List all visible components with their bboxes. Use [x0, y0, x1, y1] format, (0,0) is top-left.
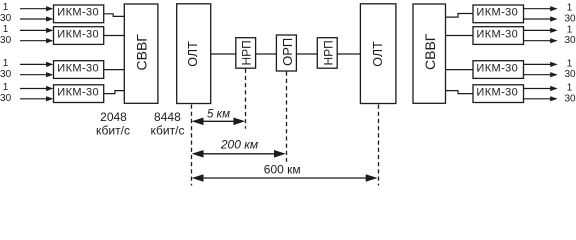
wire output arrow 30 block3 right — [524, 72, 558, 77]
svg-text:1: 1 — [567, 83, 573, 94]
block ORP — [276, 35, 296, 71]
svg-text:ИКМ-30: ИКМ-30 — [57, 7, 99, 19]
svg-text:кбит/с: кбит/с — [96, 123, 130, 137]
block OLT left — [177, 4, 211, 104]
svg-text:30: 30 — [564, 69, 576, 80]
svg-text:СВВГ: СВВГ — [422, 33, 438, 70]
svg-text:НРП: НРП — [322, 40, 336, 65]
svg-text:СВВГ: СВВГ — [133, 34, 149, 71]
svg-text:ИКМ-30: ИКМ-30 — [476, 7, 518, 19]
wire input arrow 30 block1 left — [20, 16, 53, 21]
wire NRP1 to ORP — [256, 53, 277, 55]
block IKM-30 #1 right — [473, 5, 524, 23]
svg-text:ИКМ-30: ИКМ-30 — [476, 62, 518, 74]
svg-text:1: 1 — [3, 82, 9, 93]
svg-text:кбит/с: кбит/с — [151, 123, 185, 137]
svg-text:30: 30 — [0, 93, 12, 104]
svg-text:ОЛТ: ОЛТ — [186, 41, 200, 67]
block SVVG left — [124, 4, 158, 103]
svg-text:30: 30 — [0, 13, 12, 24]
wire output arrow 1 block2 right — [524, 28, 558, 33]
wire SVVG to block3 right — [446, 69, 474, 71]
dimension arrow 600 km — [192, 174, 378, 182]
wire OLT left to NRP1 — [211, 53, 236, 55]
svg-text:30: 30 — [564, 93, 576, 104]
svg-text:600 км: 600 км — [264, 163, 301, 177]
wire block1 left to SVVG (stepped) — [104, 14, 125, 17]
svg-text:ОЛТ: ОЛТ — [371, 41, 385, 67]
dashed extension line below OLT right — [378, 105, 380, 186]
svg-text:НРП: НРП — [240, 40, 254, 65]
block IKM-30 #3 left — [54, 61, 104, 79]
wire output arrow 30 block1 right — [524, 16, 558, 21]
block IKM-30 #1 left — [54, 5, 104, 23]
dashed extension line below OLT left — [191, 105, 193, 186]
wire block2 left to SVVG — [104, 35, 125, 37]
block IKM-30 #2 left — [54, 27, 104, 45]
dashed extension line below NRP1 — [245, 69, 247, 129]
wire output arrow 1 block1 right — [524, 6, 558, 11]
block IKM-30 #3 right — [473, 61, 524, 79]
svg-text:1: 1 — [3, 2, 9, 13]
wire input arrow 30 block2 left — [20, 38, 53, 43]
wire block4 left to SVVG (stepped) — [104, 91, 125, 94]
svg-text:1: 1 — [567, 58, 573, 69]
svg-text:1: 1 — [3, 24, 9, 35]
svg-text:30: 30 — [0, 35, 12, 46]
wire input arrow 1 block3 left — [20, 62, 53, 67]
svg-text:1: 1 — [3, 58, 9, 69]
svg-text:ИКМ-30: ИКМ-30 — [476, 86, 518, 98]
block NRP2 — [317, 38, 337, 68]
svg-text:ИКМ-30: ИКМ-30 — [476, 28, 518, 40]
wire output arrow 30 block4 right — [524, 96, 558, 101]
wire input arrow 1 block1 left — [20, 6, 53, 11]
wire ORP to NRP2 — [296, 53, 317, 55]
svg-text:8448: 8448 — [154, 110, 181, 124]
svg-text:ИКМ-30: ИКМ-30 — [57, 28, 99, 40]
wire output arrow 30 block2 right — [524, 38, 558, 43]
block OLT right — [360, 4, 396, 104]
svg-text:30: 30 — [0, 69, 12, 80]
svg-text:2048: 2048 — [100, 110, 127, 124]
svg-text:1: 1 — [567, 24, 573, 35]
svg-text:1: 1 — [567, 3, 573, 14]
block NRP1 — [236, 38, 256, 68]
svg-text:5 км: 5 км — [207, 108, 230, 120]
svg-text:ОРП: ОРП — [280, 38, 295, 66]
wire input arrow 30 block4 left — [20, 96, 53, 101]
dimension arrow 200 km — [192, 150, 286, 158]
wire block3 left to SVVG — [104, 69, 125, 71]
wire SVVG to block2 right — [446, 35, 474, 37]
wire NRP2 to OLT right — [337, 53, 360, 55]
svg-text:ИКМ-30: ИКМ-30 — [57, 86, 99, 98]
block IKM-30 #4 left — [54, 85, 104, 103]
wire output arrow 1 block3 right — [524, 62, 558, 67]
dashed extension line below ORP — [286, 72, 288, 162]
svg-text:200 км: 200 км — [220, 138, 258, 152]
wire SVVG to block1 right (stepped) — [446, 14, 474, 18]
svg-text:ИКМ-30: ИКМ-30 — [57, 62, 99, 74]
wire input arrow 1 block4 left — [20, 86, 53, 91]
block IKM-30 #2 right — [473, 27, 524, 45]
dimension arrow 5 km — [192, 118, 246, 126]
svg-text:30: 30 — [564, 14, 576, 25]
svg-text:30: 30 — [564, 35, 576, 46]
wire input arrow 30 block3 left — [20, 72, 53, 77]
block SVVG right — [413, 4, 446, 103]
wire output arrow 1 block4 right — [524, 86, 558, 91]
wire SVVG to block4 right (stepped) — [446, 91, 474, 94]
block IKM-30 #4 right — [473, 85, 524, 103]
wire input arrow 1 block2 left — [20, 28, 53, 33]
